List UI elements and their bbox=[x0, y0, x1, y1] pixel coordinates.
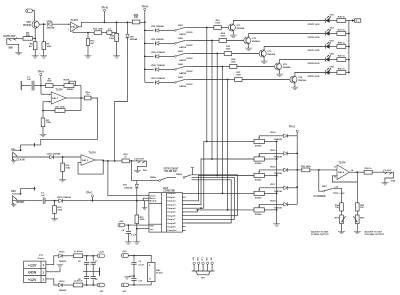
resistor R7 200 bbox=[23, 32, 33, 40]
svg-text:+12V: +12V bbox=[119, 221, 125, 223]
resistor R17 4k7 bbox=[86, 33, 95, 46]
label +12V bbox=[339, 193, 345, 195]
wire output to pot row 4 bbox=[186, 192, 255, 194]
wire VT6 base to VD20 bbox=[39, 23, 46, 25]
wire R29 to LED bus bbox=[346, 59, 349, 61]
capacitor C6 10uF bbox=[78, 272, 89, 285]
svg-text:STEP1 LED: STEP1 LED bbox=[308, 24, 320, 26]
diode VD19 1N5819 bbox=[59, 281, 68, 292]
wire output to pot row 5 bbox=[186, 210, 255, 212]
svg-text:SW7: SW7 bbox=[322, 186, 328, 188]
ground under RP2 bbox=[354, 224, 361, 234]
svg-text:Vdd: Vdd bbox=[150, 226, 155, 228]
node VD7 tap bbox=[131, 160, 133, 162]
pin stub output 5 bbox=[182, 211, 185, 213]
svg-text:XS1: XS1 bbox=[11, 149, 16, 152]
ground under RP1 bbox=[338, 224, 345, 234]
svg-text:BC546: BC546 bbox=[23, 24, 31, 27]
wire VD6 to clock line bbox=[115, 38, 128, 161]
trimmer RP2 bbox=[353, 211, 365, 224]
diode VD16 1N4148 bbox=[270, 166, 287, 175]
svg-text:SW6a: SW6a bbox=[150, 177, 157, 179]
svg-text:Output7: Output7 bbox=[167, 218, 176, 221]
svg-text:R29 1k: R29 1k bbox=[338, 55, 346, 57]
svg-text:CLK OUT: CLK OUT bbox=[134, 159, 144, 161]
label adjust 2.5V bbox=[365, 230, 385, 236]
op-amp power DA1 TL074 bbox=[148, 262, 164, 281]
svg-text:Output1: Output1 bbox=[167, 196, 176, 199]
svg-text:GATE5: GATE5 bbox=[179, 85, 187, 88]
node osc output bbox=[80, 97, 82, 99]
svg-text:1: 1 bbox=[43, 263, 45, 267]
resistor R30 1k bbox=[337, 68, 346, 74]
op-amp output stub bbox=[79, 22, 82, 27]
node feedback/R5 bbox=[42, 110, 44, 112]
switch SW6b bbox=[176, 174, 195, 180]
connector XS6 GATE OUT bbox=[3, 35, 22, 55]
svg-text:2N3904: 2N3904 bbox=[252, 40, 260, 43]
wire SW3 to base row bbox=[193, 53, 218, 55]
transistor VT2 2N3904 bbox=[244, 37, 261, 44]
svg-text:B100k: B100k bbox=[255, 180, 262, 182]
LED VD1 STEP1 bbox=[308, 15, 335, 27]
wire gate line to R16 bbox=[116, 22, 118, 33]
wire C3 to node bbox=[45, 200, 59, 202]
node LED bus row 2 bbox=[348, 33, 350, 35]
node C9 tap bbox=[133, 255, 135, 257]
node pot 3 on ground rail bbox=[276, 175, 278, 177]
pin stub output 2 bbox=[182, 200, 185, 202]
wire LED to R26 bbox=[329, 20, 337, 22]
wire +12V flag to VT6 collector bbox=[32, 11, 34, 21]
ground under VT1 bbox=[230, 31, 237, 37]
wire SW4 to base row bbox=[193, 66, 223, 68]
svg-text:VD12 1N4148: VD12 1N4148 bbox=[151, 77, 166, 80]
svg-text:GATE1: GATE1 bbox=[179, 33, 187, 36]
svg-text:+12V: +12V bbox=[99, 251, 105, 253]
node C4 tap bbox=[127, 224, 129, 226]
svg-text:GDN: GDN bbox=[28, 271, 36, 275]
wire row1 to VD16 bbox=[46, 256, 59, 265]
feedback wire row bbox=[43, 110, 81, 112]
wire bus to R24 bbox=[212, 40, 219, 42]
gate bus vertical bbox=[144, 22, 146, 82]
output bus vertical 5 bbox=[227, 80, 229, 210]
pin stub Vdd bbox=[145, 224, 149, 226]
feedback drop from output bbox=[80, 98, 82, 111]
connector XT1 power terminal bbox=[24, 255, 46, 282]
node bus 4 at pot row bbox=[222, 193, 224, 195]
node pot 2 on ground rail bbox=[276, 158, 278, 160]
svg-text:5V MAX OUTPUT: 5V MAX OUTPUT bbox=[311, 233, 329, 236]
node gate bus row 2 bbox=[144, 43, 146, 45]
svg-text:SW2: SW2 bbox=[178, 38, 184, 40]
wire gate line to VD6 bbox=[126, 22, 128, 34]
node R19 tap bbox=[62, 156, 64, 158]
svg-text:SW5: SW5 bbox=[178, 77, 184, 79]
svg-text:SW4: SW4 bbox=[178, 63, 184, 66]
diode VD15 1N4148 bbox=[57, 196, 72, 203]
node mid ground tap bbox=[133, 275, 135, 277]
pin header XP1 bbox=[192, 256, 215, 280]
wire R26 to LED bus bbox=[346, 20, 349, 22]
wire pot right lead 1 bbox=[264, 140, 276, 142]
wire VD10 to SW3 bbox=[159, 55, 175, 57]
comparator feedback loop bbox=[78, 161, 103, 174]
switch SW6a bbox=[150, 177, 176, 182]
svg-text:100k: 100k bbox=[46, 122, 52, 124]
capacitor C9 0.1uF bbox=[131, 256, 144, 277]
wire bus to R27 bbox=[228, 79, 235, 81]
svg-text:SW6b: SW6b bbox=[176, 174, 183, 176]
node bus 3 at pot row bbox=[216, 175, 218, 177]
svg-text:DA1.2: DA1.2 bbox=[71, 26, 78, 29]
wire gate bus to VD9 bbox=[145, 42, 154, 44]
op-amp DA1.1 TL074 bbox=[49, 89, 66, 104]
wire GDN row bbox=[46, 271, 60, 273]
osc output wire bbox=[66, 97, 81, 99]
wiper wire row 2 bbox=[259, 152, 283, 154]
wire R25 to VT3 bbox=[232, 53, 259, 55]
node gate bus row 4 bbox=[144, 69, 146, 71]
wire node to comparator bbox=[63, 156, 81, 158]
svg-text:Power: Power bbox=[38, 258, 45, 260]
node at R9 top bbox=[43, 23, 45, 25]
power flag -12V (DA1) bbox=[121, 283, 128, 293]
LED VD5 STEP5 bbox=[308, 67, 335, 79]
connector XS5 CV OUT bbox=[381, 170, 396, 185]
node C8 bottom bbox=[92, 284, 94, 286]
transistor VT5 2N3904 bbox=[290, 76, 307, 83]
wire LED to R29 bbox=[329, 59, 337, 61]
diode VD7 1N4148 bbox=[123, 181, 139, 201]
resistor R34 91k bbox=[335, 203, 343, 211]
node C7 top bbox=[92, 255, 94, 257]
node pot 4 on ground rail bbox=[276, 193, 278, 195]
diode VD9 1N4148 bbox=[151, 38, 164, 45]
potentiometer step 5 B100k bbox=[254, 204, 264, 216]
wire +5V contact to R34 bbox=[338, 188, 341, 203]
svg-text:1N4148: 1N4148 bbox=[124, 187, 132, 190]
svg-text:3: 3 bbox=[43, 278, 45, 282]
node R16 chain top bbox=[116, 21, 118, 23]
node Vss join bbox=[136, 228, 138, 230]
node R15 tap bbox=[54, 200, 56, 202]
resistor R35 15k bbox=[356, 203, 365, 211]
wire C2 to R16 chain bbox=[112, 32, 117, 34]
node bus 2 at pot row bbox=[211, 158, 213, 160]
transistor VT6 bbox=[23, 21, 39, 28]
svg-text:VD16: VD16 bbox=[59, 252, 65, 254]
svg-text:+12V: +12V bbox=[339, 193, 345, 195]
wire VT1 collector to LED row bbox=[233, 21, 325, 25]
wire minus drop bbox=[42, 102, 44, 111]
wire C1 to node A bbox=[34, 85, 46, 87]
resistor R15 100k bbox=[53, 201, 63, 214]
capacitor C4 0.1uF bbox=[122, 225, 137, 242]
label adjust 5V bbox=[311, 230, 329, 236]
svg-text:1uF: 1uF bbox=[27, 79, 32, 81]
ground under R17 bbox=[85, 46, 92, 59]
svg-text:ON-ON-ON: ON-ON-ON bbox=[165, 171, 177, 173]
node output bus row 1 top bbox=[206, 27, 208, 29]
wire to R5 bbox=[42, 111, 44, 119]
svg-text:TPt-D: TPt-D bbox=[142, 6, 149, 9]
label +5V bbox=[334, 186, 338, 188]
svg-text:TL074: TL074 bbox=[89, 151, 97, 154]
connector XS1 CLK IN bbox=[11, 143, 41, 163]
zener VD6 1N4148 bbox=[126, 34, 138, 41]
svg-text:Output9: Output9 bbox=[167, 226, 176, 229]
switch SW7 bbox=[322, 186, 338, 193]
test point TPt-B bbox=[101, 7, 108, 23]
svg-text:+12V: +12V bbox=[28, 263, 37, 267]
wire bus to R31 bbox=[297, 169, 302, 171]
CV summing bus vertical bbox=[296, 136, 298, 205]
pin stub Vss bbox=[145, 228, 149, 230]
svg-text:-12V: -12V bbox=[122, 291, 127, 293]
pin stub clock bbox=[145, 195, 149, 197]
pin stub output 0 bbox=[182, 192, 185, 194]
svg-text:SW1: SW1 bbox=[178, 25, 184, 27]
svg-text:STEP3 LED: STEP3 LED bbox=[308, 50, 320, 52]
svg-text:VD19: VD19 bbox=[59, 281, 65, 283]
resistor R26 100k bbox=[229, 59, 237, 68]
resistor R25 100k bbox=[224, 46, 232, 55]
svg-text:VD15: VD15 bbox=[270, 150, 276, 152]
node clock to IC bbox=[107, 160, 109, 162]
wire L2 to -12V flag bbox=[83, 284, 98, 286]
svg-text:2N3904: 2N3904 bbox=[237, 27, 245, 30]
wire R28 to LED bus bbox=[346, 46, 349, 48]
transistor VT4 2N3904 bbox=[275, 63, 292, 70]
transistor VT3 2N3904 bbox=[259, 50, 276, 57]
svg-text:TPt-C: TPt-C bbox=[86, 191, 93, 194]
node TPt-C tap bbox=[92, 200, 94, 202]
resistor R5 100k bbox=[41, 118, 51, 127]
LED VD2 STEP2 bbox=[308, 28, 335, 39]
wire output bbox=[349, 171, 364, 173]
node output bbox=[356, 171, 358, 173]
capacitor C1 1uF bbox=[27, 77, 34, 91]
test point TPt-D bbox=[142, 6, 149, 23]
svg-text:R28 1k: R28 1k bbox=[338, 42, 346, 44]
LED supply bus vertical bbox=[348, 21, 350, 73]
power flag +12V (rail) bbox=[97, 251, 104, 257]
wire XS3 to C3 bbox=[12, 200, 42, 202]
wire VD16 to L1 bbox=[62, 255, 73, 257]
wire clock to IC clock pin bbox=[108, 161, 145, 196]
wire R9 drop bbox=[43, 24, 45, 42]
ground under R21 bbox=[133, 242, 140, 244]
diode VD16 1N5819 bbox=[59, 252, 68, 263]
resistor R11 100k bbox=[55, 106, 65, 112]
diode VD8 1N4148 bbox=[151, 25, 164, 32]
svg-text:OUT: OUT bbox=[202, 257, 204, 260]
power flag +12V (top left) bbox=[26, 9, 33, 12]
svg-text:100k: 100k bbox=[226, 48, 232, 50]
wire SW6b sel1 bbox=[186, 175, 238, 216]
svg-text:100k: 100k bbox=[47, 81, 53, 83]
svg-text:VD17: VD17 bbox=[270, 184, 276, 186]
wire SW1 to base row bbox=[193, 27, 207, 29]
wire VD9 to SW2 bbox=[159, 42, 175, 44]
wire jack to R7 bbox=[7, 37, 23, 39]
svg-text:RESET: RESET bbox=[17, 201, 26, 204]
wire VD13 to node bbox=[53, 156, 63, 158]
wire pot right lead 4 bbox=[264, 192, 276, 194]
ground under pot rail bbox=[273, 224, 280, 226]
svg-text:200: 200 bbox=[26, 34, 31, 37]
wire emitter node down to R8 bbox=[34, 38, 36, 41]
svg-text:2: 2 bbox=[43, 270, 45, 274]
node A (TPt-A tap) bbox=[40, 85, 42, 87]
wire R26 to VT4 bbox=[237, 66, 274, 68]
wire enable stub bbox=[143, 200, 145, 202]
svg-text:CV RANGE: CV RANGE bbox=[314, 195, 327, 198]
wire gate bus to VD12 bbox=[145, 81, 154, 83]
svg-text:1N4148: 1N4148 bbox=[274, 190, 282, 193]
wire VD11 to SW4 bbox=[159, 68, 175, 70]
svg-text:VD9 1N4148: VD9 1N4148 bbox=[151, 38, 164, 41]
wire SW2 to base row bbox=[193, 40, 213, 42]
wire R20 to gate bus bbox=[140, 21, 145, 23]
svg-text:Output8: Output8 bbox=[167, 222, 176, 225]
node LED bus row 3 bbox=[348, 46, 350, 48]
svg-text:B100k: B100k bbox=[255, 163, 262, 165]
node SW7 tap bbox=[318, 169, 320, 171]
LED VD4 STEP4 bbox=[308, 53, 335, 66]
resistor R27 100k bbox=[235, 72, 243, 81]
inductor L2 47uH bbox=[74, 279, 83, 287]
resistor R8 4k7 bbox=[29, 42, 37, 50]
node VD6 join clock bbox=[114, 160, 116, 162]
svg-text:0.1uF: 0.1uF bbox=[131, 234, 137, 236]
ground under R5 bbox=[40, 127, 47, 137]
diode VD15 1N4148 bbox=[270, 150, 287, 159]
ground under C4 bbox=[125, 242, 132, 244]
svg-text:1N4148: 1N4148 bbox=[130, 38, 138, 41]
svg-text:TL074: TL074 bbox=[56, 89, 64, 92]
svg-text:100k: 100k bbox=[46, 46, 52, 48]
wire VT3 collector to LED row bbox=[264, 47, 325, 51]
diode VD17 1N4148 bbox=[270, 184, 287, 193]
svg-text:TL074: TL074 bbox=[156, 272, 163, 275]
svg-text:Clock: Clock bbox=[150, 195, 157, 197]
svg-text:Output2: Output2 bbox=[167, 200, 176, 203]
connector XS3 RESET bbox=[11, 187, 36, 207]
wire LED to R28 bbox=[329, 46, 337, 48]
node output bus row 3 top bbox=[216, 53, 218, 55]
wire plus input bbox=[41, 86, 51, 95]
resistor R21 100k bbox=[135, 201, 145, 224]
svg-text:XS3: XS3 bbox=[11, 190, 16, 193]
potentiometer step 3 B100k bbox=[254, 170, 264, 182]
transistor VT1 2N3904 bbox=[228, 24, 245, 31]
op-amp DA1.3 TL074 (comparator) bbox=[81, 151, 96, 165]
svg-text:DA1.3: DA1.3 bbox=[82, 159, 89, 162]
svg-text:TL074: TL074 bbox=[338, 161, 346, 164]
wire SW5 to base row bbox=[193, 79, 228, 81]
svg-text:STEP4 LED: STEP4 LED bbox=[308, 62, 320, 65]
wire pot right lead 2 bbox=[264, 158, 276, 160]
capacitor C5 10uF bbox=[78, 256, 89, 272]
output bus vertical 4 bbox=[221, 67, 223, 194]
svg-text:Output6: Output6 bbox=[167, 214, 176, 217]
wire VT2 collector to LED row bbox=[249, 34, 326, 38]
svg-text:100k: 100k bbox=[65, 167, 71, 169]
svg-text:+12V: +12V bbox=[122, 251, 128, 253]
wire R7 to emitter node bbox=[33, 37, 36, 39]
op-amp DA1.2 TL074 bbox=[68, 19, 79, 32]
ground under VT5 bbox=[291, 83, 298, 89]
svg-text:VD15 1N4148: VD15 1N4148 bbox=[57, 196, 72, 199]
svg-text:R36 1k: R36 1k bbox=[365, 168, 373, 170]
svg-text:100k: 100k bbox=[140, 219, 146, 221]
wire VD8 to SW1 bbox=[159, 29, 175, 31]
resistor R22 1k bbox=[122, 154, 129, 163]
svg-text:100: 100 bbox=[134, 16, 139, 19]
wire R27 to LED bus bbox=[346, 33, 349, 35]
svg-text:Output5: Output5 bbox=[167, 211, 176, 214]
node gate bus row 1 bbox=[144, 30, 146, 32]
wire Vss to ground bbox=[137, 228, 145, 230]
svg-text:B100k: B100k bbox=[255, 145, 262, 147]
wire output riser row 2 bbox=[186, 159, 255, 205]
svg-text:DA1: DA1 bbox=[156, 269, 161, 272]
resistor R9 100k bbox=[42, 42, 52, 50]
node LED bus row 5 bbox=[348, 72, 350, 74]
pin stub enable bbox=[145, 200, 149, 202]
svg-text:1N4148: 1N4148 bbox=[274, 155, 282, 158]
wire minus input bbox=[43, 101, 51, 103]
svg-text:VD13 1N4148: VD13 1N4148 bbox=[47, 152, 62, 155]
svg-text:R31 100k: R31 100k bbox=[301, 166, 311, 168]
connector XS2 CLK OUT bbox=[134, 159, 148, 173]
svg-text:2N3904: 2N3904 bbox=[267, 53, 275, 56]
wire bar to C1 bbox=[21, 85, 31, 87]
node R17 tap bbox=[87, 32, 89, 34]
svg-text:GATE2: GATE2 bbox=[179, 46, 187, 49]
svg-text:GATE3: GATE3 bbox=[179, 59, 187, 62]
node bus 5 at pot row bbox=[227, 209, 229, 211]
node gate bus top bbox=[144, 21, 146, 23]
switch SW1 bbox=[174, 25, 192, 36]
node bus 1 at pot row bbox=[206, 141, 208, 143]
comparator output wire bbox=[95, 159, 122, 162]
wire emitter down bbox=[34, 28, 36, 38]
wire SW6b sel3 bbox=[186, 180, 232, 223]
wire LED to R30 bbox=[329, 72, 337, 74]
resistor R6 100k bbox=[46, 78, 54, 87]
node C10 bottom bbox=[133, 284, 135, 286]
wire +12V to DA1 box bbox=[128, 256, 151, 263]
wire pot to osc output bbox=[74, 86, 81, 98]
wire R27 to VT5 bbox=[242, 79, 290, 81]
node pot row5 jog bbox=[197, 209, 199, 211]
node output bus row 4 top bbox=[222, 66, 224, 68]
wire VD12 to SW5 bbox=[159, 81, 175, 83]
ground under R16 bbox=[113, 42, 120, 59]
node VD7 bottom bbox=[136, 200, 138, 202]
ground under VT3 bbox=[261, 57, 268, 63]
wire output to R35 bbox=[356, 182, 358, 203]
test point TPt-C (CV bus) bbox=[289, 126, 299, 136]
svg-text:R26 1k: R26 1k bbox=[338, 16, 346, 18]
svg-text:Reset: Reset bbox=[150, 197, 156, 200]
diode VD12 1N4148 bbox=[151, 77, 166, 84]
wire pot right lead 5 bbox=[264, 209, 276, 211]
